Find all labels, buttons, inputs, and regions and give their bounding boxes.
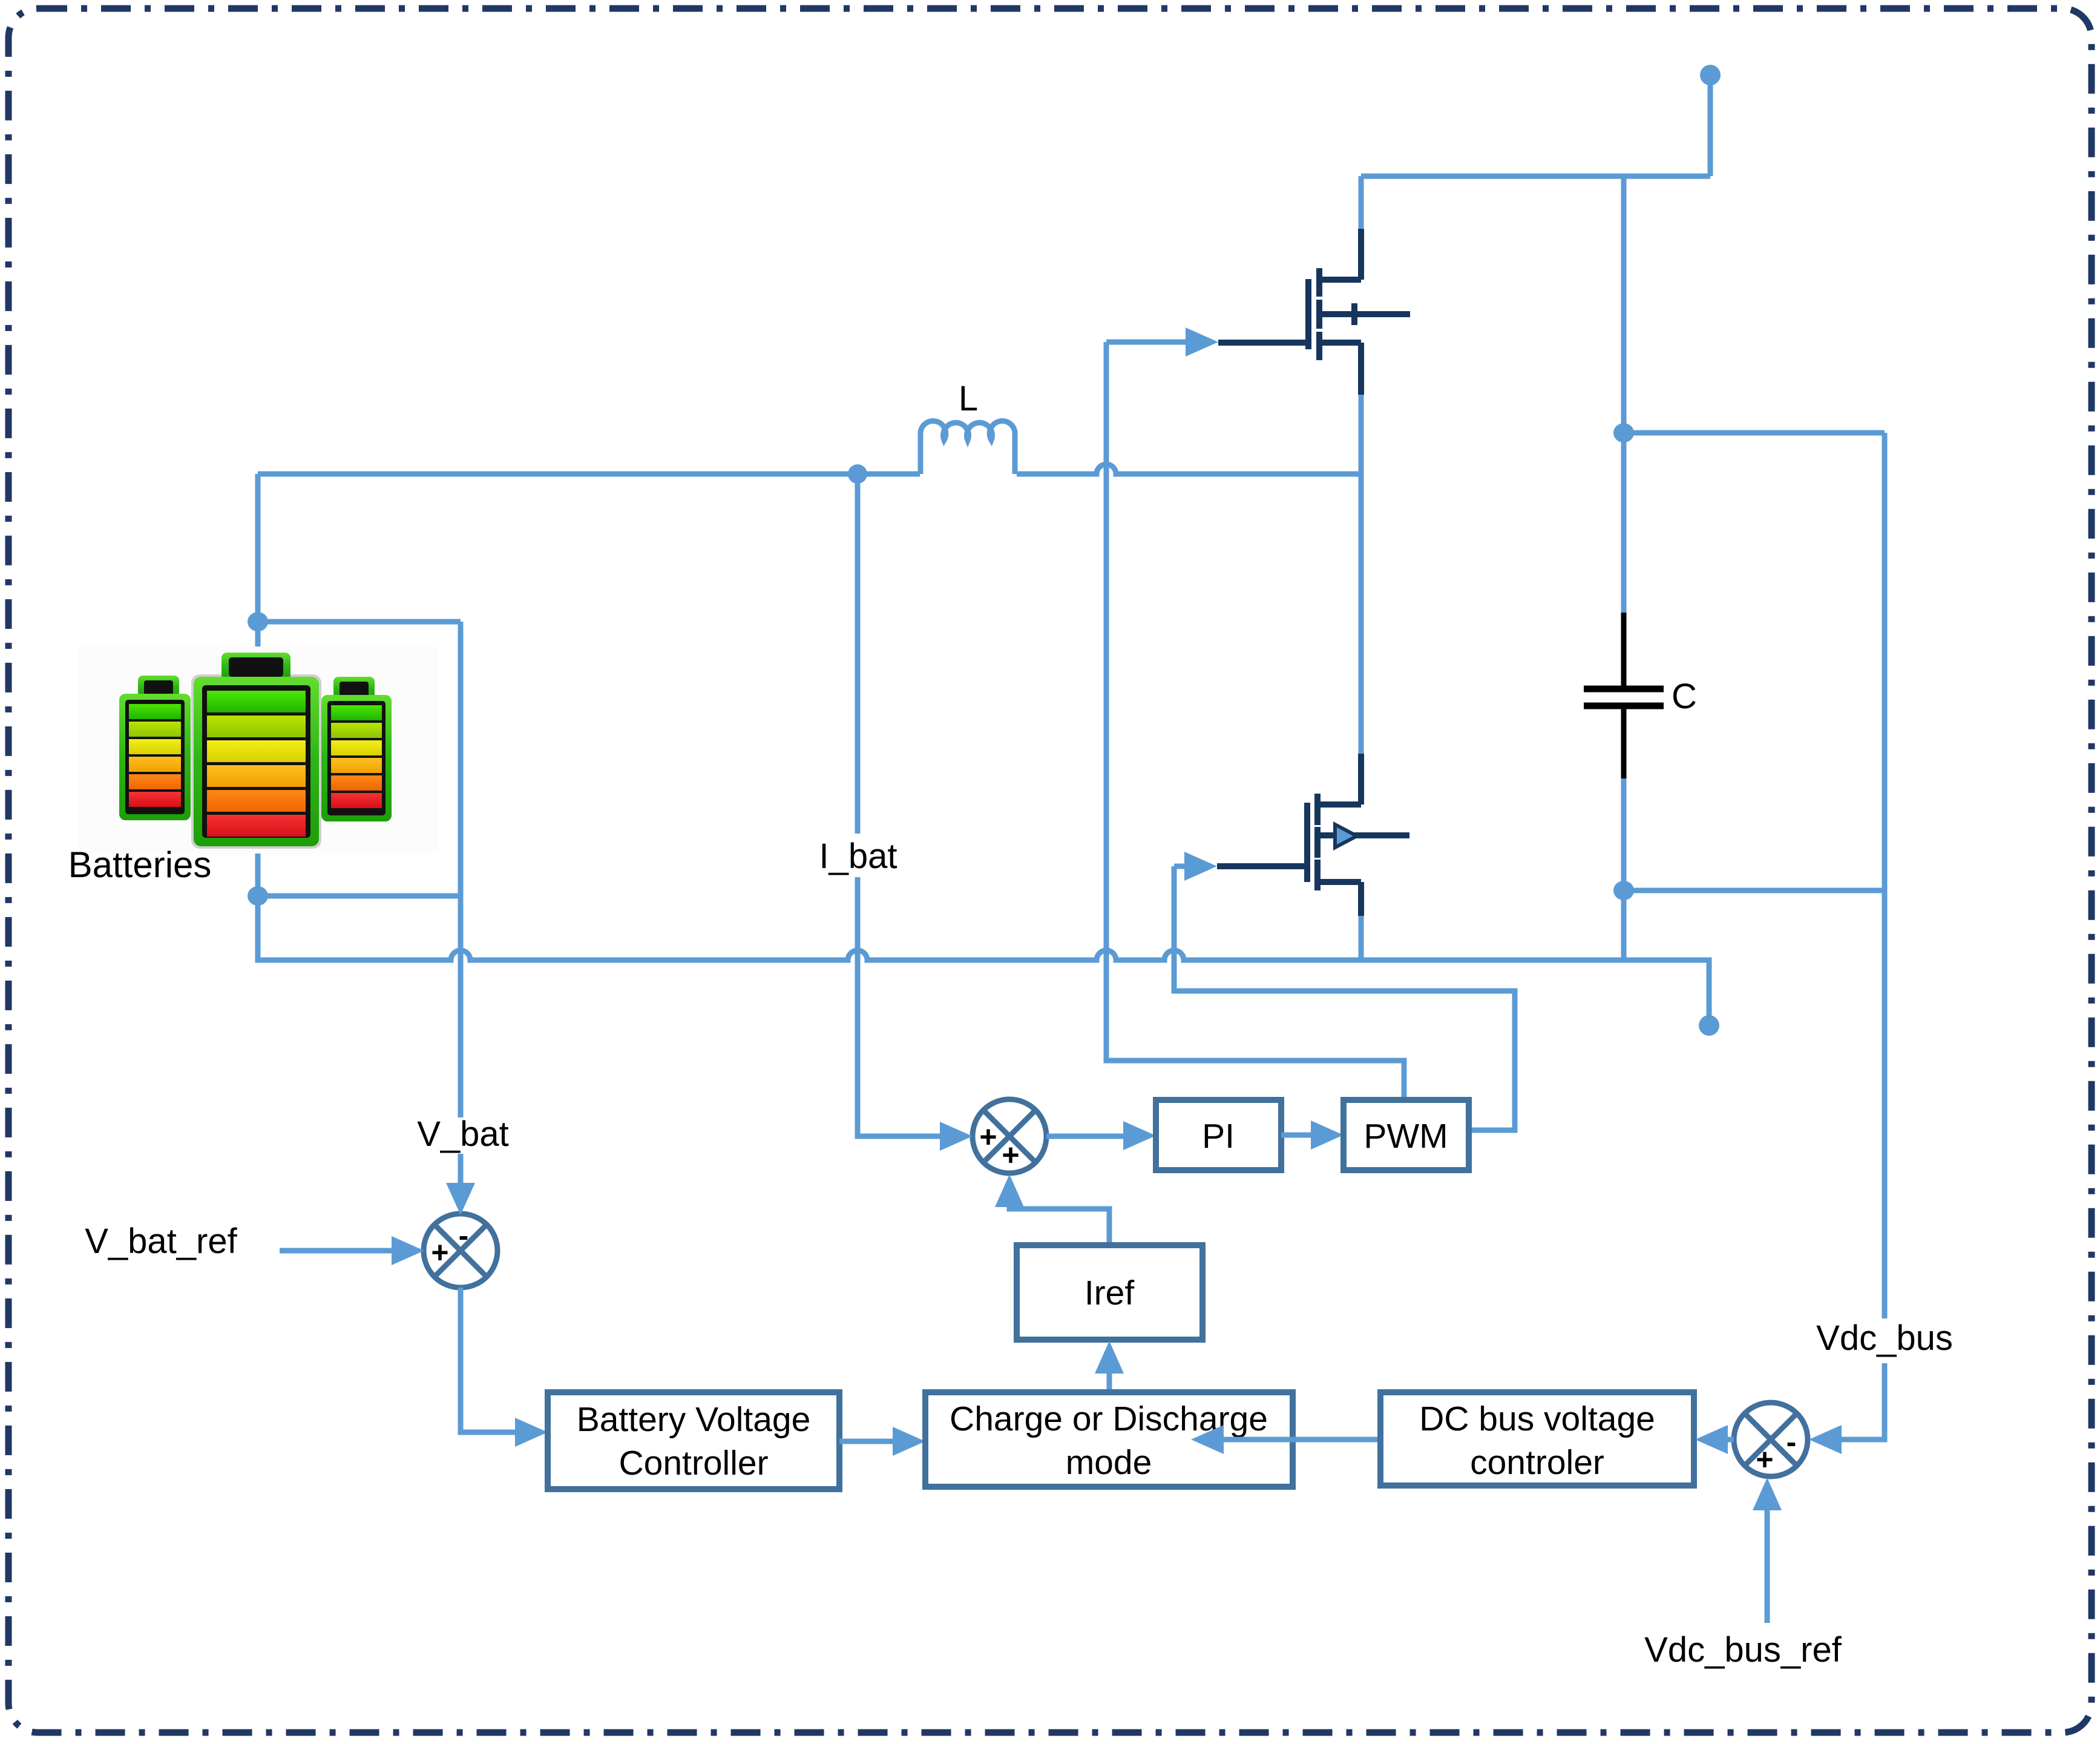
wire: cap bottom to right riser xyxy=(1624,888,1885,893)
wire: switching node vertical between MOSFETs xyxy=(1359,392,1364,755)
wire: battery plus vertical drop xyxy=(255,474,261,660)
wire: battery minus bus to DC link (hops at 761,1417,1828,1940) xyxy=(258,896,1709,1016)
wire: main top rail from battery to switching node (hop at 1828) xyxy=(258,464,1361,474)
arrow: into CDM right xyxy=(1191,1425,1224,1454)
wire: upper gate lead with arrow xyxy=(1106,340,1186,345)
svg-text:Iref: Iref xyxy=(1084,1274,1135,1312)
node: bus terminal dot xyxy=(1699,1015,1719,1036)
wire: capacitor branch top drop xyxy=(1621,176,1627,433)
svg-text:L: L xyxy=(959,379,978,418)
node: DC plus terminal dot xyxy=(1700,65,1721,85)
svg-text:V_bat_ref: V_bat_ref xyxy=(85,1222,237,1261)
svg-text:I_bat: I_bat xyxy=(819,837,897,876)
arrow: V_bat into S1 top xyxy=(446,1183,475,1215)
svg-text:Battery Voltage: Battery Voltage xyxy=(577,1400,811,1439)
node: cap top junction dot xyxy=(1613,423,1634,443)
summing junction S1 (V_bat) xyxy=(424,1214,497,1288)
svg-text:mode: mode xyxy=(1066,1443,1152,1482)
svg-text:PI: PI xyxy=(1202,1117,1235,1156)
svg-text:Batteries: Batteries xyxy=(68,844,212,885)
block Charge or Discharge mode xyxy=(925,1392,1293,1487)
svg-text:Controller: Controller xyxy=(619,1444,768,1482)
wire: battery minus horizontal to sense riser xyxy=(258,893,461,899)
svg-text:C: C xyxy=(1672,677,1697,716)
wire: capacitor leads (blue parts) xyxy=(1621,433,1627,958)
arrow: into CDM left xyxy=(893,1427,925,1456)
wire: cap top to right riser xyxy=(1624,430,1885,436)
svg-text:-: - xyxy=(1787,1425,1797,1459)
wire: PI to PWM xyxy=(1281,1133,1311,1138)
arrow: into PI left xyxy=(1123,1121,1156,1150)
svg-text:DC bus voltage: DC bus voltage xyxy=(1419,1400,1655,1438)
wire: DC bus voltage controler to CDM xyxy=(1224,1437,1380,1443)
wire: upper MOSFET drain riser xyxy=(1359,176,1364,231)
left battery xyxy=(138,676,179,699)
svg-text:Vdc_bus_ref: Vdc_bus_ref xyxy=(1644,1630,1842,1670)
capacitor C xyxy=(1621,613,1627,686)
node: cap bottom junction dot xyxy=(1613,881,1634,900)
arrow: I_bat into S2 left xyxy=(940,1122,973,1151)
MOSFET Q2 (lower) xyxy=(1217,754,1409,916)
node: battery minus junction dot xyxy=(248,886,268,906)
MOSFET Q2 body arrow xyxy=(1335,824,1357,847)
block PI xyxy=(1156,1100,1281,1170)
arrow: S3 output into DCB right xyxy=(1695,1425,1728,1454)
block Battery Voltage Controller xyxy=(548,1392,839,1489)
wire: lower gate drive from PWM right xyxy=(1174,866,1515,1130)
arrow: into Iref bottom xyxy=(1095,1341,1124,1374)
svg-text:controler: controler xyxy=(1470,1443,1604,1482)
wire: lower MOSFET source to bus xyxy=(1359,913,1364,958)
middle battery xyxy=(191,674,321,849)
arrow: into lower MOSFET gate xyxy=(1184,852,1217,881)
arrow: V_bat_ref into S1 left xyxy=(392,1236,424,1265)
wire: lower gate lead with arrow xyxy=(1174,864,1185,869)
wire: Vdc_bus_ref into S3 bottom xyxy=(1765,1510,1770,1623)
wire: S1 output to Battery Voltage Controller xyxy=(461,1288,515,1432)
svg-text:Vdc_bus: Vdc_bus xyxy=(1816,1318,1953,1358)
arrow: Vdc_bus_ref into S3 bottom xyxy=(1753,1478,1782,1510)
svg-text:+: + xyxy=(1002,1138,1019,1172)
svg-text:+: + xyxy=(431,1236,448,1269)
svg-text:-: - xyxy=(459,1219,469,1252)
wire: top rail to DC plus terminal xyxy=(1361,85,1710,176)
node: battery plus junction dot xyxy=(248,612,268,631)
MOSFET Q1 (upper) xyxy=(1218,229,1410,395)
summing junction S3 (Vdc_bus) xyxy=(1734,1403,1808,1476)
svg-text:PWM: PWM xyxy=(1363,1117,1448,1156)
wire: BVC to CDM xyxy=(839,1439,893,1444)
block DC bus voltage controler xyxy=(1380,1392,1694,1486)
wire: S3 to DCB xyxy=(1728,1437,1734,1443)
arrow: Iref into S2 bottom xyxy=(995,1174,1024,1207)
wire: upper gate drive vertical from PWM top xyxy=(1106,342,1404,1099)
svg-text:+: + xyxy=(1756,1443,1773,1476)
arrow: into BVC left xyxy=(515,1418,548,1447)
node: I_bat tap dot xyxy=(848,464,867,484)
arrow: into PWM left xyxy=(1311,1120,1344,1150)
summing junction S2 (I_bat + Iref) xyxy=(973,1099,1046,1173)
wire: right riser / Vdc_bus sense (label gap) xyxy=(1840,433,1885,1440)
block Iref xyxy=(1017,1245,1203,1340)
svg-text:V_bat: V_bat xyxy=(417,1114,509,1154)
arrow: Vdc_bus into S3 right xyxy=(1809,1425,1842,1454)
wire: battery minus stub xyxy=(255,854,261,896)
wire: V_bat_ref into S1 xyxy=(280,1248,392,1254)
wire: Charge/Discharge mode up to Iref xyxy=(1107,1372,1112,1392)
right battery xyxy=(333,677,375,700)
batteries icon xyxy=(79,647,439,854)
wire: battery plus horizontal to sense riser xyxy=(258,619,461,625)
wire: S2 output to PI xyxy=(1046,1134,1123,1139)
arrow: into upper MOSFET gate xyxy=(1186,327,1218,357)
inductor L xyxy=(920,421,1015,474)
wire: V_bat sense vertical (with V_bat label gap) xyxy=(458,622,464,1185)
block PWM xyxy=(1344,1100,1469,1170)
svg-text:+: + xyxy=(979,1120,997,1154)
wire: I_bat measurement drop (label gap) and lead into sum2 xyxy=(858,474,940,1136)
wire: Iref up into S2 xyxy=(1009,1206,1109,1245)
